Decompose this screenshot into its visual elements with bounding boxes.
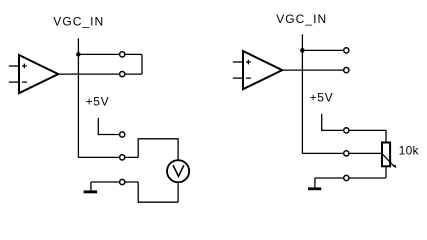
wire: op-amp U2 non-inverting input stub <box>233 61 243 63</box>
wire: op-amp U1 non-inverting input stub <box>9 65 19 67</box>
wire: op-amp U1 inverting input stub <box>9 81 19 83</box>
terminal pin circle: row 1 (right) <box>344 48 349 53</box>
svg-text:VGC_IN: VGC_IN <box>53 14 104 28</box>
wire: op-amp output row 2 (left) <box>58 73 142 75</box>
wire: op-amp output row 2 (right) <box>282 69 346 71</box>
terminal pin circle: row 3 (right) <box>344 151 349 156</box>
wire: row 3 from bus (left) <box>78 156 138 158</box>
voltmeter M1 <box>167 160 189 182</box>
terminal pin circle: row 2 (right) <box>344 68 349 73</box>
junction: VGC_IN to row 1 (right) <box>300 48 305 53</box>
terminal pin circle: row 1 (left) <box>120 52 125 57</box>
wire: op-amp U2 inverting input stub <box>233 77 243 79</box>
wire: row 3 wiper feed (right) <box>302 152 382 154</box>
wire: ground row 4 (left) <box>91 181 138 183</box>
terminal pin circle: row 4 (left) <box>120 179 125 184</box>
terminal pin circle: row 2 (left) <box>120 72 125 77</box>
wire: ground row 4 (right) <box>315 177 386 179</box>
svg-text:10k: 10k <box>399 144 420 158</box>
wire: jumper loop vertical (left) <box>141 54 143 74</box>
wire: pin row 1 (left) <box>78 53 142 55</box>
svg-text:VGC_IN: VGC_IN <box>276 12 327 26</box>
terminal pin circle: +5V (left) <box>120 132 125 137</box>
svg-text:+5V: +5V <box>86 95 110 109</box>
wire: potentiometer bottom lead <box>385 166 387 178</box>
terminal pin circle: row 3 (left) <box>120 155 125 160</box>
op-amp U1 <box>19 55 58 93</box>
wire: pin row 1 (right) <box>302 49 346 51</box>
wire: row 3 up and over to voltmeter top <box>138 139 178 160</box>
junction: VGC_IN to row 1 (left) <box>76 52 81 57</box>
potentiometer R1 <box>382 143 397 168</box>
terminal pin circle: row 4 (right) <box>344 175 349 180</box>
terminal pin circle: +5V (right) <box>344 128 349 133</box>
wire: VGC_IN vertical bus (right) <box>301 34 303 153</box>
wire: +5V stub (left) <box>98 118 122 135</box>
op-amp U2 <box>243 51 282 89</box>
wire: bottom return run (left) <box>138 182 178 202</box>
svg-text:+5V: +5V <box>310 91 334 105</box>
wire: VGC_IN vertical bus (left) <box>77 38 79 157</box>
ground symbol (right) <box>308 178 321 190</box>
ground symbol (left) <box>84 182 98 193</box>
wire: +5V stub (right) <box>322 114 347 130</box>
wire: +5V over to potentiometer top <box>346 130 386 142</box>
wire: voltmeter bottom lead <box>177 183 179 203</box>
